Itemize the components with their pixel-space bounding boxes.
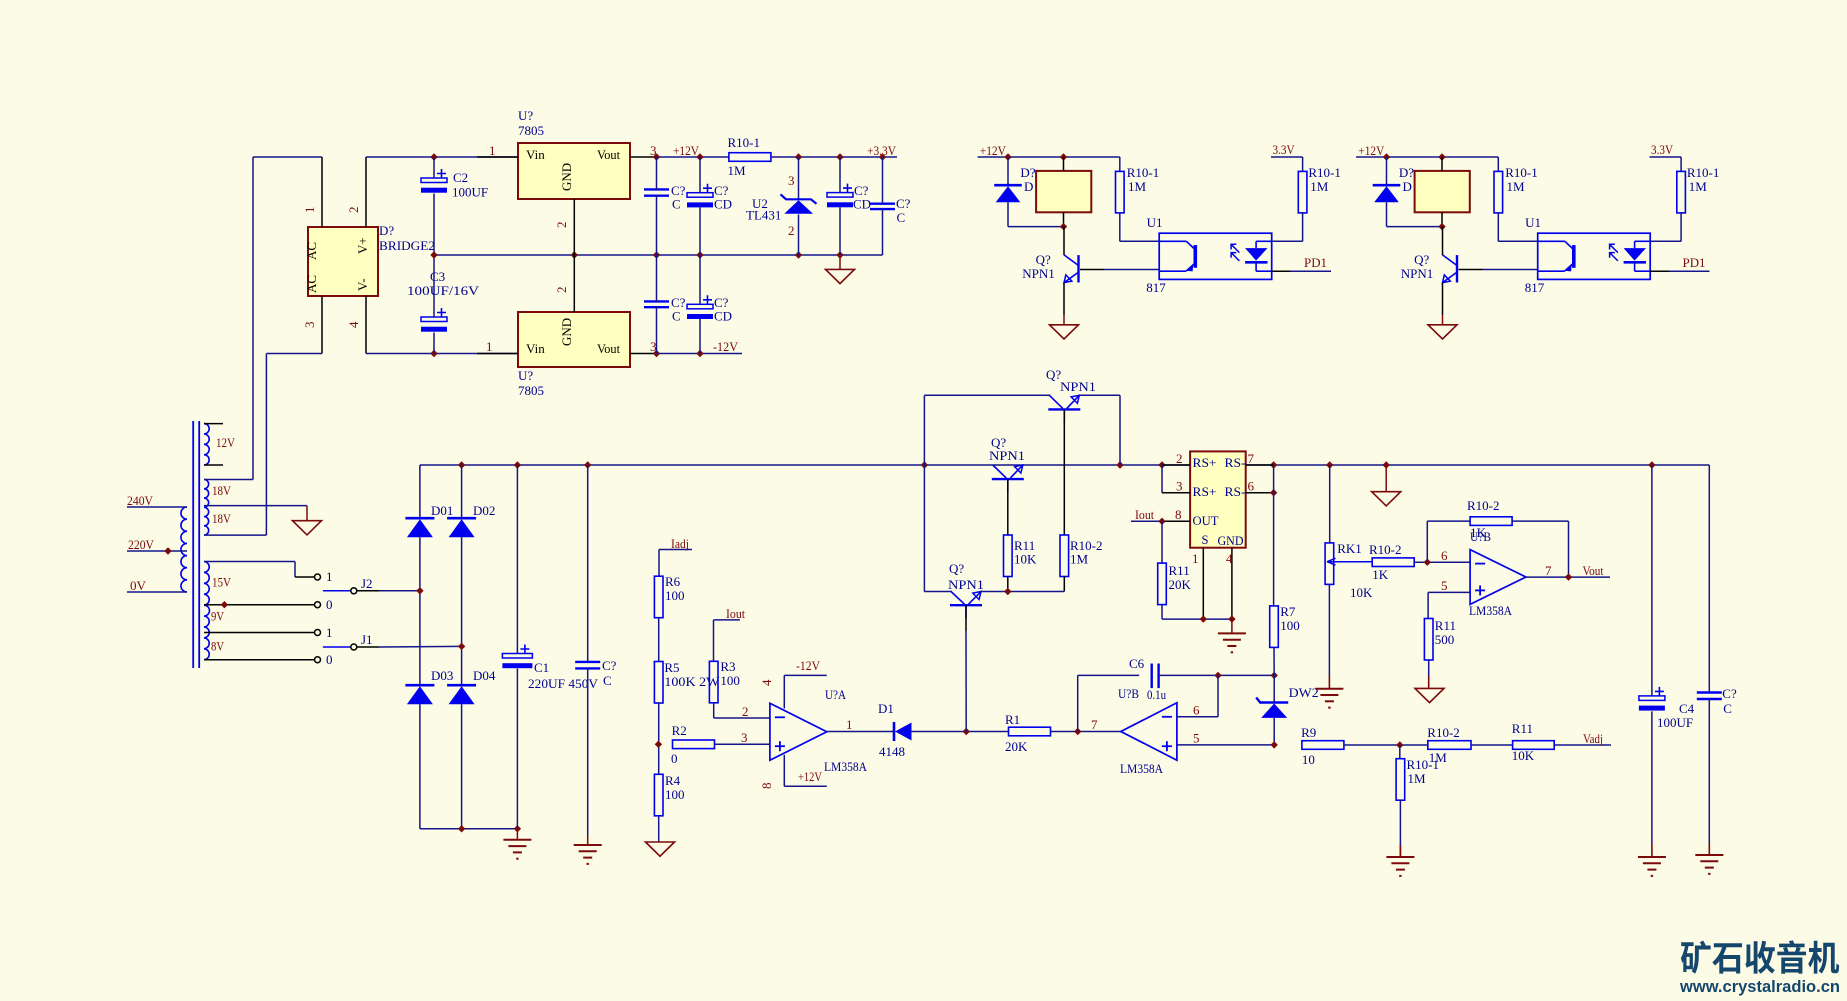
junction bbox=[1424, 559, 1431, 566]
wire bbox=[1512, 520, 1568, 522]
opto LED bbox=[1256, 240, 1272, 242]
wire ground rail bbox=[434, 254, 883, 256]
wire bbox=[1568, 521, 1570, 577]
capacitor C? CD right bbox=[827, 193, 853, 198]
svg-text:R4: R4 bbox=[665, 773, 681, 788]
junction bbox=[696, 251, 703, 258]
wire bbox=[656, 255, 658, 301]
connector pin 1 (8V) bbox=[315, 630, 321, 636]
svg-text:U1: U1 bbox=[1147, 215, 1163, 230]
pin 3 of U? lower bbox=[630, 353, 657, 355]
wire C6 to DW2 node bbox=[1159, 674, 1275, 676]
svg-text:C: C bbox=[603, 673, 612, 688]
svg-text:+12V: +12V bbox=[673, 143, 700, 158]
svg-text:0V: 0V bbox=[130, 578, 147, 593]
junction bbox=[1228, 615, 1235, 622]
wire bbox=[1708, 465, 1710, 693]
svg-text:3: 3 bbox=[1176, 479, 1183, 494]
wire bbox=[1302, 157, 1304, 171]
wire J2 to bridge node bbox=[379, 590, 420, 592]
wire bbox=[1217, 675, 1219, 716]
wire ground stem bbox=[1231, 619, 1233, 633]
svg-text:C: C bbox=[1723, 701, 1732, 716]
pin J2 right bbox=[357, 590, 379, 592]
pin 7 bbox=[1246, 464, 1274, 466]
svg-text:OUT: OUT bbox=[1193, 514, 1219, 528]
wire top loop left bbox=[924, 394, 1050, 396]
op-amp U?A LM358A bbox=[770, 703, 827, 760]
component box bbox=[1036, 171, 1091, 212]
junction tap bbox=[221, 601, 228, 608]
wire +12V stub bbox=[784, 785, 827, 787]
resistor R10-1 bbox=[1677, 171, 1686, 213]
svg-text:Iout: Iout bbox=[726, 606, 745, 621]
svg-text:J2: J2 bbox=[361, 576, 373, 591]
wire Iout stub bbox=[714, 619, 741, 621]
wire bbox=[798, 215, 800, 256]
wire bbox=[798, 157, 800, 199]
wire bbox=[1427, 520, 1470, 522]
wire J2 left stub bbox=[323, 590, 351, 592]
svg-text:500: 500 bbox=[1435, 632, 1455, 647]
wire bbox=[1007, 202, 1009, 226]
junction bbox=[430, 251, 437, 258]
svg-text:www.crystalradio.cn: www.crystalradio.cn bbox=[1679, 978, 1840, 996]
wire to U?B inverting input bbox=[1414, 561, 1470, 563]
junction bbox=[795, 153, 802, 160]
wire bbox=[1302, 213, 1304, 241]
wire bbox=[1273, 647, 1275, 675]
svg-text:-12V: -12V bbox=[796, 658, 821, 673]
svg-text:8V: 8V bbox=[211, 639, 224, 654]
svg-text:C?: C? bbox=[1722, 686, 1737, 701]
svg-text:10: 10 bbox=[1302, 752, 1315, 767]
svg-text:R10-1: R10-1 bbox=[728, 135, 761, 150]
wire 18V top lead bbox=[204, 479, 253, 481]
wire -12V bbox=[657, 353, 743, 355]
wire bbox=[433, 255, 435, 317]
resistor R11 bbox=[1158, 563, 1167, 605]
transformer core bbox=[192, 421, 194, 668]
wire ground stem bbox=[1063, 315, 1065, 325]
svg-text:Vout: Vout bbox=[1583, 563, 1604, 578]
svg-text:R9: R9 bbox=[1301, 725, 1316, 740]
power ground bbox=[826, 269, 855, 283]
resistor R3 bbox=[709, 661, 718, 703]
svg-text:4: 4 bbox=[346, 321, 361, 328]
wire bbox=[658, 618, 660, 662]
earth ground bbox=[1315, 688, 1343, 690]
capacitor C1 bbox=[502, 654, 532, 659]
opto phototransistor bbox=[1159, 240, 1186, 242]
svg-text:Vadj: Vadj bbox=[1583, 731, 1603, 746]
junction bbox=[1271, 672, 1278, 679]
svg-text:PD1: PD1 bbox=[1683, 255, 1706, 270]
svg-text:DW2: DW2 bbox=[1289, 685, 1319, 700]
svg-text:1M: 1M bbox=[1408, 771, 1427, 786]
wire bbox=[587, 465, 589, 662]
svg-text:RS+: RS+ bbox=[1193, 456, 1217, 470]
potentiometer RK1 bbox=[1325, 543, 1334, 585]
transistor Q? NPN1 bbox=[1077, 255, 1079, 282]
svg-text:C: C bbox=[672, 309, 681, 324]
svg-text:U?B: U?B bbox=[1470, 529, 1491, 544]
opto LED bbox=[1635, 240, 1651, 242]
capacitor C? right bbox=[870, 202, 895, 204]
wire ground stem maroon part bbox=[1385, 465, 1387, 492]
diode D04 bbox=[447, 684, 476, 687]
wire bbox=[1708, 699, 1710, 843]
junction bbox=[879, 153, 886, 160]
svg-text:C3: C3 bbox=[430, 269, 445, 284]
svg-text:10K: 10K bbox=[1014, 552, 1037, 567]
junction bbox=[458, 461, 465, 468]
svg-text:D03: D03 bbox=[431, 668, 453, 683]
svg-text:D02: D02 bbox=[473, 503, 495, 518]
junction bbox=[514, 825, 521, 832]
junction bbox=[514, 461, 521, 468]
wire base to opto bbox=[1104, 269, 1159, 271]
svg-text:1K: 1K bbox=[1372, 567, 1389, 582]
pin 9V/8V tap lead bbox=[204, 632, 314, 634]
svg-text:PD1: PD1 bbox=[1304, 255, 1327, 270]
current sense module bbox=[1190, 451, 1246, 547]
wire Iout stub bbox=[1131, 520, 1162, 522]
junction 220V tap bbox=[164, 547, 171, 554]
junction bbox=[1270, 461, 1277, 468]
wire bbox=[433, 333, 435, 354]
wire bbox=[1119, 395, 1121, 465]
svg-text:100UF: 100UF bbox=[452, 185, 488, 200]
wire J1 left stub bbox=[323, 646, 351, 648]
pin 6 bbox=[1246, 492, 1274, 494]
svg-text:NPN1: NPN1 bbox=[989, 448, 1025, 463]
pin bbox=[1007, 577, 1009, 592]
capacitor C6 bbox=[1150, 664, 1152, 689]
pin 8V bottom lead bbox=[204, 659, 314, 661]
junction bbox=[921, 461, 928, 468]
svg-text:20K: 20K bbox=[1005, 739, 1028, 754]
wire bbox=[1273, 675, 1275, 702]
pin to J2-1 bbox=[295, 576, 314, 578]
svg-text:10K: 10K bbox=[1350, 585, 1373, 600]
resistor R10-2 bbox=[1372, 558, 1414, 567]
wire bbox=[1120, 240, 1159, 242]
wire -12V stub bbox=[784, 674, 827, 676]
capacitor C4 bbox=[1639, 696, 1665, 701]
junction J1 node bbox=[458, 643, 465, 650]
pin 2 of bridge bbox=[365, 157, 367, 227]
svg-text:V+: V+ bbox=[355, 237, 370, 254]
resistor R11 bbox=[1424, 619, 1433, 661]
junction bbox=[1158, 518, 1165, 525]
svg-text:C?: C? bbox=[602, 658, 617, 673]
pin 1 of U? upper bbox=[477, 156, 518, 158]
junction bbox=[1648, 461, 1655, 468]
resistor R10-1 bbox=[1494, 171, 1503, 213]
wire bbox=[433, 157, 435, 178]
wire bbox=[1161, 605, 1163, 619]
wire 220V lead bbox=[127, 550, 187, 552]
wire 0V lead bbox=[127, 591, 187, 593]
wire bbox=[516, 669, 518, 829]
zener diode DW2 bbox=[1256, 698, 1288, 703]
svg-text:R5: R5 bbox=[664, 660, 679, 675]
wire bbox=[461, 465, 463, 518]
wire bbox=[1008, 226, 1064, 228]
shunt regulator U2 TL431 bbox=[781, 194, 817, 204]
wire bbox=[1007, 157, 1009, 185]
wire 15V top lead bbox=[204, 561, 295, 563]
pin 8 bbox=[1162, 520, 1190, 522]
svg-text:7: 7 bbox=[1248, 451, 1255, 466]
wire bbox=[713, 703, 715, 718]
junction bbox=[1438, 153, 1445, 160]
svg-text:D04: D04 bbox=[473, 668, 496, 683]
svg-text:R10-1: R10-1 bbox=[1407, 757, 1440, 772]
svg-text:D?: D? bbox=[1020, 165, 1035, 180]
svg-text:3: 3 bbox=[788, 173, 795, 188]
connector pin 0 (15V) bbox=[315, 602, 321, 608]
pin collector bbox=[1063, 227, 1065, 256]
junction bbox=[1200, 615, 1207, 622]
wire base down to D1 node bbox=[965, 631, 967, 732]
wire bbox=[924, 591, 952, 593]
svg-text:NPN1: NPN1 bbox=[1401, 266, 1434, 281]
pin 4 of bridge bbox=[365, 296, 367, 354]
resistor R2 bbox=[673, 740, 715, 749]
pin 1 of bridge bbox=[321, 157, 323, 227]
svg-text:Q?: Q? bbox=[949, 561, 964, 576]
wire bbox=[1386, 202, 1388, 226]
wire 3.3V stub bbox=[1650, 156, 1682, 158]
wire bbox=[1497, 213, 1499, 241]
svg-text:R11: R11 bbox=[1512, 721, 1533, 736]
svg-text:7805: 7805 bbox=[518, 383, 544, 398]
wire bbox=[1471, 744, 1513, 746]
wire ground stem bbox=[1442, 315, 1444, 325]
svg-text:NPN1: NPN1 bbox=[1060, 379, 1096, 394]
svg-text:1: 1 bbox=[489, 143, 496, 158]
svg-text:4148: 4148 bbox=[879, 744, 905, 759]
diode D01 bbox=[405, 517, 434, 520]
capacitor C? bbox=[575, 661, 600, 663]
resistor R7 bbox=[1270, 606, 1279, 648]
svg-text:CD: CD bbox=[714, 309, 732, 324]
junction bbox=[1060, 153, 1067, 160]
svg-text:GND: GND bbox=[559, 163, 574, 191]
wire main positive rail (left) bbox=[420, 464, 1190, 466]
wire bbox=[1386, 157, 1388, 185]
wire ground stem bbox=[1328, 676, 1330, 689]
wire bbox=[699, 255, 701, 304]
svg-text:D?: D? bbox=[379, 223, 394, 238]
wire to U?A + bbox=[715, 743, 770, 745]
svg-text:C: C bbox=[897, 210, 906, 225]
junction bbox=[653, 350, 660, 357]
junction bbox=[653, 153, 660, 160]
wire bbox=[699, 207, 701, 255]
wire ground stem bbox=[1428, 676, 1430, 688]
pin 3 bbox=[1162, 492, 1190, 494]
transformer 12V winding bbox=[204, 424, 209, 465]
wire J1 to bridge node bbox=[379, 645, 462, 648]
svg-text:18V: 18V bbox=[212, 483, 232, 498]
svg-text:RS+: RS+ bbox=[1193, 485, 1217, 499]
svg-text:2: 2 bbox=[554, 287, 569, 294]
wire bbox=[980, 591, 1064, 593]
wire ground stem bbox=[1651, 843, 1653, 857]
junction bbox=[1270, 489, 1277, 496]
diode D03 bbox=[405, 684, 434, 687]
svg-text:R10-1: R10-1 bbox=[1687, 165, 1720, 180]
ground centre tap bbox=[293, 521, 322, 535]
wire bbox=[1651, 465, 1653, 696]
transistor Q? NPN1 bbox=[1456, 255, 1458, 282]
svg-text:TL431: TL431 bbox=[746, 208, 781, 223]
svg-text:+12V: +12V bbox=[798, 769, 822, 784]
resistor R10-1 bbox=[1298, 171, 1307, 213]
wire bbox=[1680, 213, 1682, 241]
wire bbox=[419, 704, 421, 829]
wire to U?B non-inverting input bbox=[1428, 591, 1470, 593]
wire bbox=[1399, 800, 1401, 857]
wire pin4 bbox=[783, 675, 785, 708]
svg-text:+12V: +12V bbox=[1358, 143, 1385, 158]
wire bbox=[1426, 521, 1428, 562]
wire R1 to U?B bbox=[1051, 731, 1121, 733]
svg-text:15V: 15V bbox=[212, 575, 232, 590]
diode D1 4148 bbox=[893, 722, 896, 741]
watermark logo bbox=[1681, 940, 1839, 973]
wire bbox=[1078, 674, 1140, 676]
svg-text:18V: 18V bbox=[212, 511, 232, 526]
wire bbox=[516, 465, 518, 654]
svg-text:CD: CD bbox=[714, 197, 732, 212]
connector J1 bbox=[351, 644, 357, 650]
power ground bbox=[1415, 688, 1444, 702]
wire 18V bottom lead bbox=[204, 534, 266, 536]
wire bbox=[1273, 718, 1275, 745]
junction bbox=[696, 153, 703, 160]
junction bbox=[430, 153, 437, 160]
junction bbox=[1004, 153, 1011, 160]
svg-text:D01: D01 bbox=[431, 503, 453, 518]
wire bbox=[587, 668, 589, 834]
svg-text:Q?: Q? bbox=[1036, 252, 1051, 267]
resistor R4 bbox=[654, 774, 663, 816]
wire ground stem bbox=[839, 255, 841, 269]
svg-text:R10-1: R10-1 bbox=[1127, 165, 1160, 180]
svg-text:Iout: Iout bbox=[1135, 507, 1154, 522]
power ground bbox=[1372, 492, 1401, 506]
svg-text:100UF: 100UF bbox=[1657, 715, 1693, 730]
svg-text:C2: C2 bbox=[453, 170, 468, 185]
wire negative rail bottom bbox=[420, 828, 518, 830]
transformer 15V/9V/8V windings bbox=[204, 562, 209, 660]
svg-text:R1: R1 bbox=[1005, 712, 1020, 727]
wire bbox=[658, 703, 660, 774]
wire ground stem bbox=[1708, 843, 1710, 855]
junction bbox=[1004, 588, 1011, 595]
wire bbox=[1680, 157, 1682, 171]
wire bbox=[656, 307, 658, 353]
wire bbox=[699, 157, 701, 193]
pin bbox=[1650, 270, 1668, 272]
power ground bbox=[1050, 325, 1079, 339]
wire bbox=[461, 704, 463, 829]
pin bbox=[1441, 212, 1443, 226]
resistor R11 bbox=[1513, 741, 1555, 750]
resistor R10-1 bbox=[1116, 171, 1125, 213]
svg-text:Vout: Vout bbox=[597, 147, 620, 162]
wire PD1 bbox=[1669, 270, 1710, 272]
wire main positive rail (right) bbox=[1246, 464, 1710, 466]
svg-text:RS-: RS- bbox=[1225, 485, 1246, 499]
wire bbox=[1650, 240, 1681, 242]
bridge rectifier D? BRIDGE2 bbox=[308, 227, 378, 296]
transistor Q? NPN1 (top) bbox=[1048, 408, 1080, 410]
resistor R10-1 bbox=[729, 153, 771, 162]
svg-text:Q?: Q? bbox=[1414, 252, 1429, 267]
svg-text:100: 100 bbox=[665, 787, 685, 802]
wire bbox=[1329, 465, 1331, 543]
wire top loop right bbox=[1078, 394, 1120, 396]
wire bbox=[1273, 465, 1275, 606]
svg-text:+12V: +12V bbox=[980, 143, 1007, 158]
wire -raw rail bbox=[366, 353, 518, 355]
pin bbox=[1063, 577, 1065, 592]
pin bbox=[1063, 157, 1065, 171]
wire 240V lead bbox=[127, 506, 187, 508]
svg-text:C: C bbox=[672, 197, 681, 212]
pin 1 of U? lower bbox=[477, 353, 518, 355]
svg-text:U1: U1 bbox=[1525, 215, 1541, 230]
svg-text:1M: 1M bbox=[728, 163, 747, 178]
wire bbox=[882, 209, 884, 255]
svg-text:RK1: RK1 bbox=[1337, 541, 1362, 556]
earth ground bbox=[574, 844, 602, 846]
svg-text:R2: R2 bbox=[672, 723, 687, 738]
resistor R1 bbox=[1009, 727, 1051, 736]
wire bbox=[294, 562, 296, 578]
wire Vadj bbox=[1554, 744, 1611, 746]
svg-text:8: 8 bbox=[759, 783, 774, 790]
wire pin8 bbox=[783, 755, 785, 787]
svg-text:2: 2 bbox=[346, 207, 361, 214]
svg-text:D: D bbox=[1403, 179, 1412, 194]
svg-text:3: 3 bbox=[302, 322, 317, 329]
svg-text:D1: D1 bbox=[878, 701, 894, 716]
pin base bbox=[1080, 269, 1104, 271]
svg-text:3.3V: 3.3V bbox=[1651, 142, 1674, 157]
pin base bbox=[1459, 269, 1483, 271]
wire Vout bbox=[1526, 576, 1610, 578]
svg-text:R10-2: R10-2 bbox=[1427, 725, 1460, 740]
wire bbox=[1497, 157, 1499, 171]
wire bbox=[713, 620, 715, 661]
resistor R9 bbox=[1302, 741, 1344, 750]
svg-text:817: 817 bbox=[1525, 280, 1545, 295]
wire bbox=[1162, 618, 1232, 620]
svg-text:0: 0 bbox=[671, 751, 678, 766]
opto phototransistor bbox=[1538, 240, 1565, 242]
junction bbox=[1565, 573, 1572, 580]
op-amp U?B LM358A (left) bbox=[1121, 703, 1177, 760]
svg-text:0: 0 bbox=[326, 597, 333, 612]
regulator U? 7805 (upper) bbox=[518, 143, 630, 199]
earth ground bbox=[503, 839, 531, 841]
